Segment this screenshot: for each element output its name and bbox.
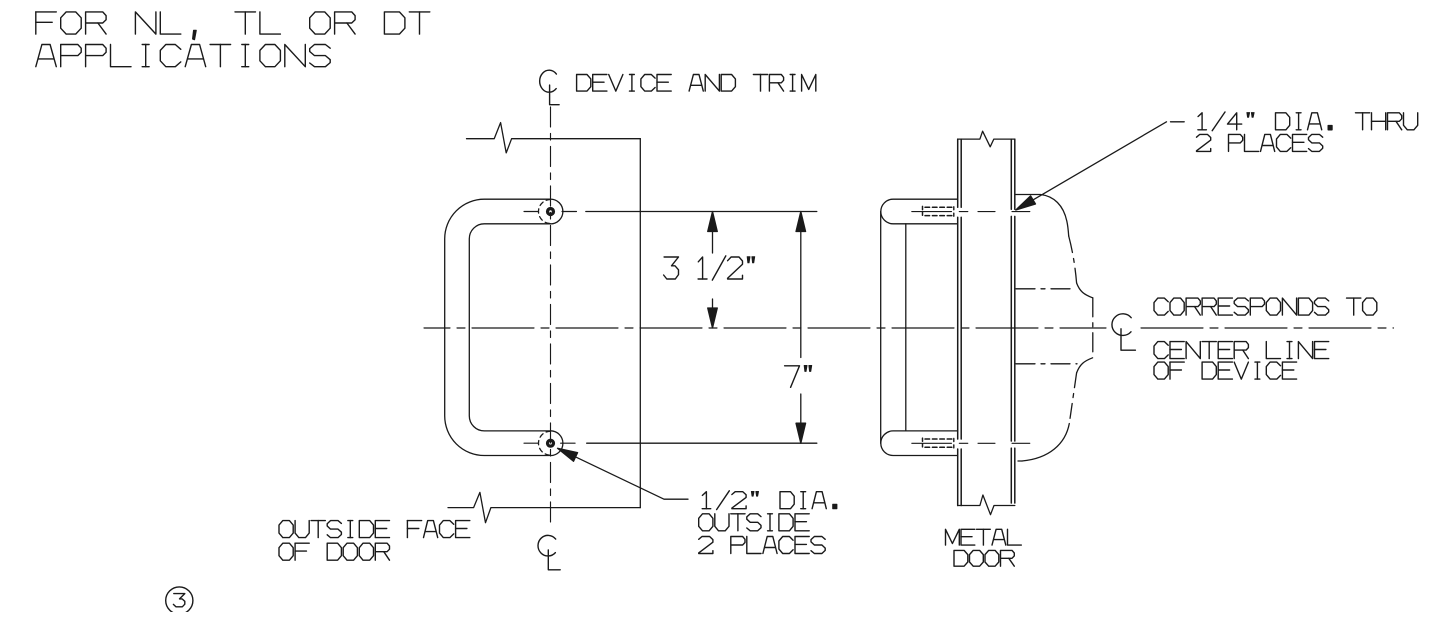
top extension line <box>586 211 817 213</box>
door outside face: top edge with break symbol <box>467 123 641 153</box>
pull handle front view: outer contour <box>445 199 551 455</box>
dimension text 3 1/2" <box>664 256 755 280</box>
label CORRESPONDS TO <box>1154 298 1377 315</box>
7 inch dimension line upper segment <box>800 213 802 358</box>
bottom 1/2 dia dashed circle (left arc) <box>539 431 551 455</box>
handle side view: grip outer edge <box>880 212 882 444</box>
metal door bottom break symbol <box>958 495 1015 515</box>
bottom extension line <box>587 442 817 444</box>
dimension text 7" <box>785 365 812 387</box>
bottom standoff capsule <box>881 431 957 456</box>
bottom 1/4 dia thru hole (thick ring) <box>548 440 554 446</box>
note 1/2" DIA. <box>702 491 837 510</box>
centerline symbol right (corresponds to center line of device) <box>1112 314 1135 350</box>
label OUTSIDE FACE <box>279 521 470 538</box>
title text FOR NL, TL OR DT <box>36 12 430 40</box>
device lower phantom edge <box>1016 363 1077 365</box>
note 2 PLACES (bottom) <box>699 537 826 554</box>
label DEVICE AND TRIM <box>577 75 816 92</box>
note OUTSIDE <box>699 514 810 531</box>
top hole horizontal centerline ticks <box>524 211 577 213</box>
device housing phantom outline right of door <box>1016 195 1069 237</box>
centerline symbol top (device and trim) <box>540 70 559 104</box>
3 1/2 dimension line lower segment <box>712 299 714 327</box>
note 2 PLACES (top) <box>1197 134 1323 151</box>
top 1/4 dia thru hole (thick ring) <box>548 209 554 215</box>
top fastener centerline <box>912 211 995 213</box>
top 1/2 dia dashed circle (left arc) <box>539 200 551 224</box>
bottom mounting post end cap arc <box>551 431 563 456</box>
centerline symbol bottom <box>538 535 560 569</box>
label CENTER LINE <box>1154 342 1329 359</box>
title text APPLICATIONS <box>36 45 330 67</box>
top standoff capsule <box>881 199 957 224</box>
label OF DOOR <box>279 543 390 560</box>
metal door top break symbol <box>958 131 1015 147</box>
top mounting post end cap arc <box>551 199 563 224</box>
handle side view: grip inner edge <box>905 224 907 431</box>
bottom hole horizontal centerline ticks <box>524 442 575 444</box>
3 1/2 dimension line upper segment <box>712 213 714 253</box>
7 inch dimension line lower segment <box>800 394 802 442</box>
hidden screw top <box>922 206 924 216</box>
leader to 1/2 dia note <box>562 450 689 499</box>
horizontal centerline of device (long dash-dot) <box>424 327 1106 329</box>
label DOOR <box>954 550 1014 566</box>
device upper phantom edge <box>1016 288 1074 290</box>
pull handle front view: inner contour <box>469 224 550 431</box>
door outside face: right edge <box>639 139 641 508</box>
vertical centerline (device and trim) <box>550 107 552 529</box>
label OF DEVICE <box>1154 362 1297 379</box>
metal door left face double line <box>957 139 959 505</box>
metal door right face double line <box>1010 139 1012 503</box>
bottom fastener centerline <box>912 442 995 444</box>
hidden screw bottom <box>922 438 924 448</box>
leader to 1/4 dia note <box>1032 122 1167 201</box>
door outside face: bottom edge with break symbol <box>448 492 640 522</box>
label METAL <box>946 529 1022 545</box>
sheet note circled 3 <box>166 587 193 614</box>
note 1/4" DIA. THRU <box>1198 112 1418 131</box>
